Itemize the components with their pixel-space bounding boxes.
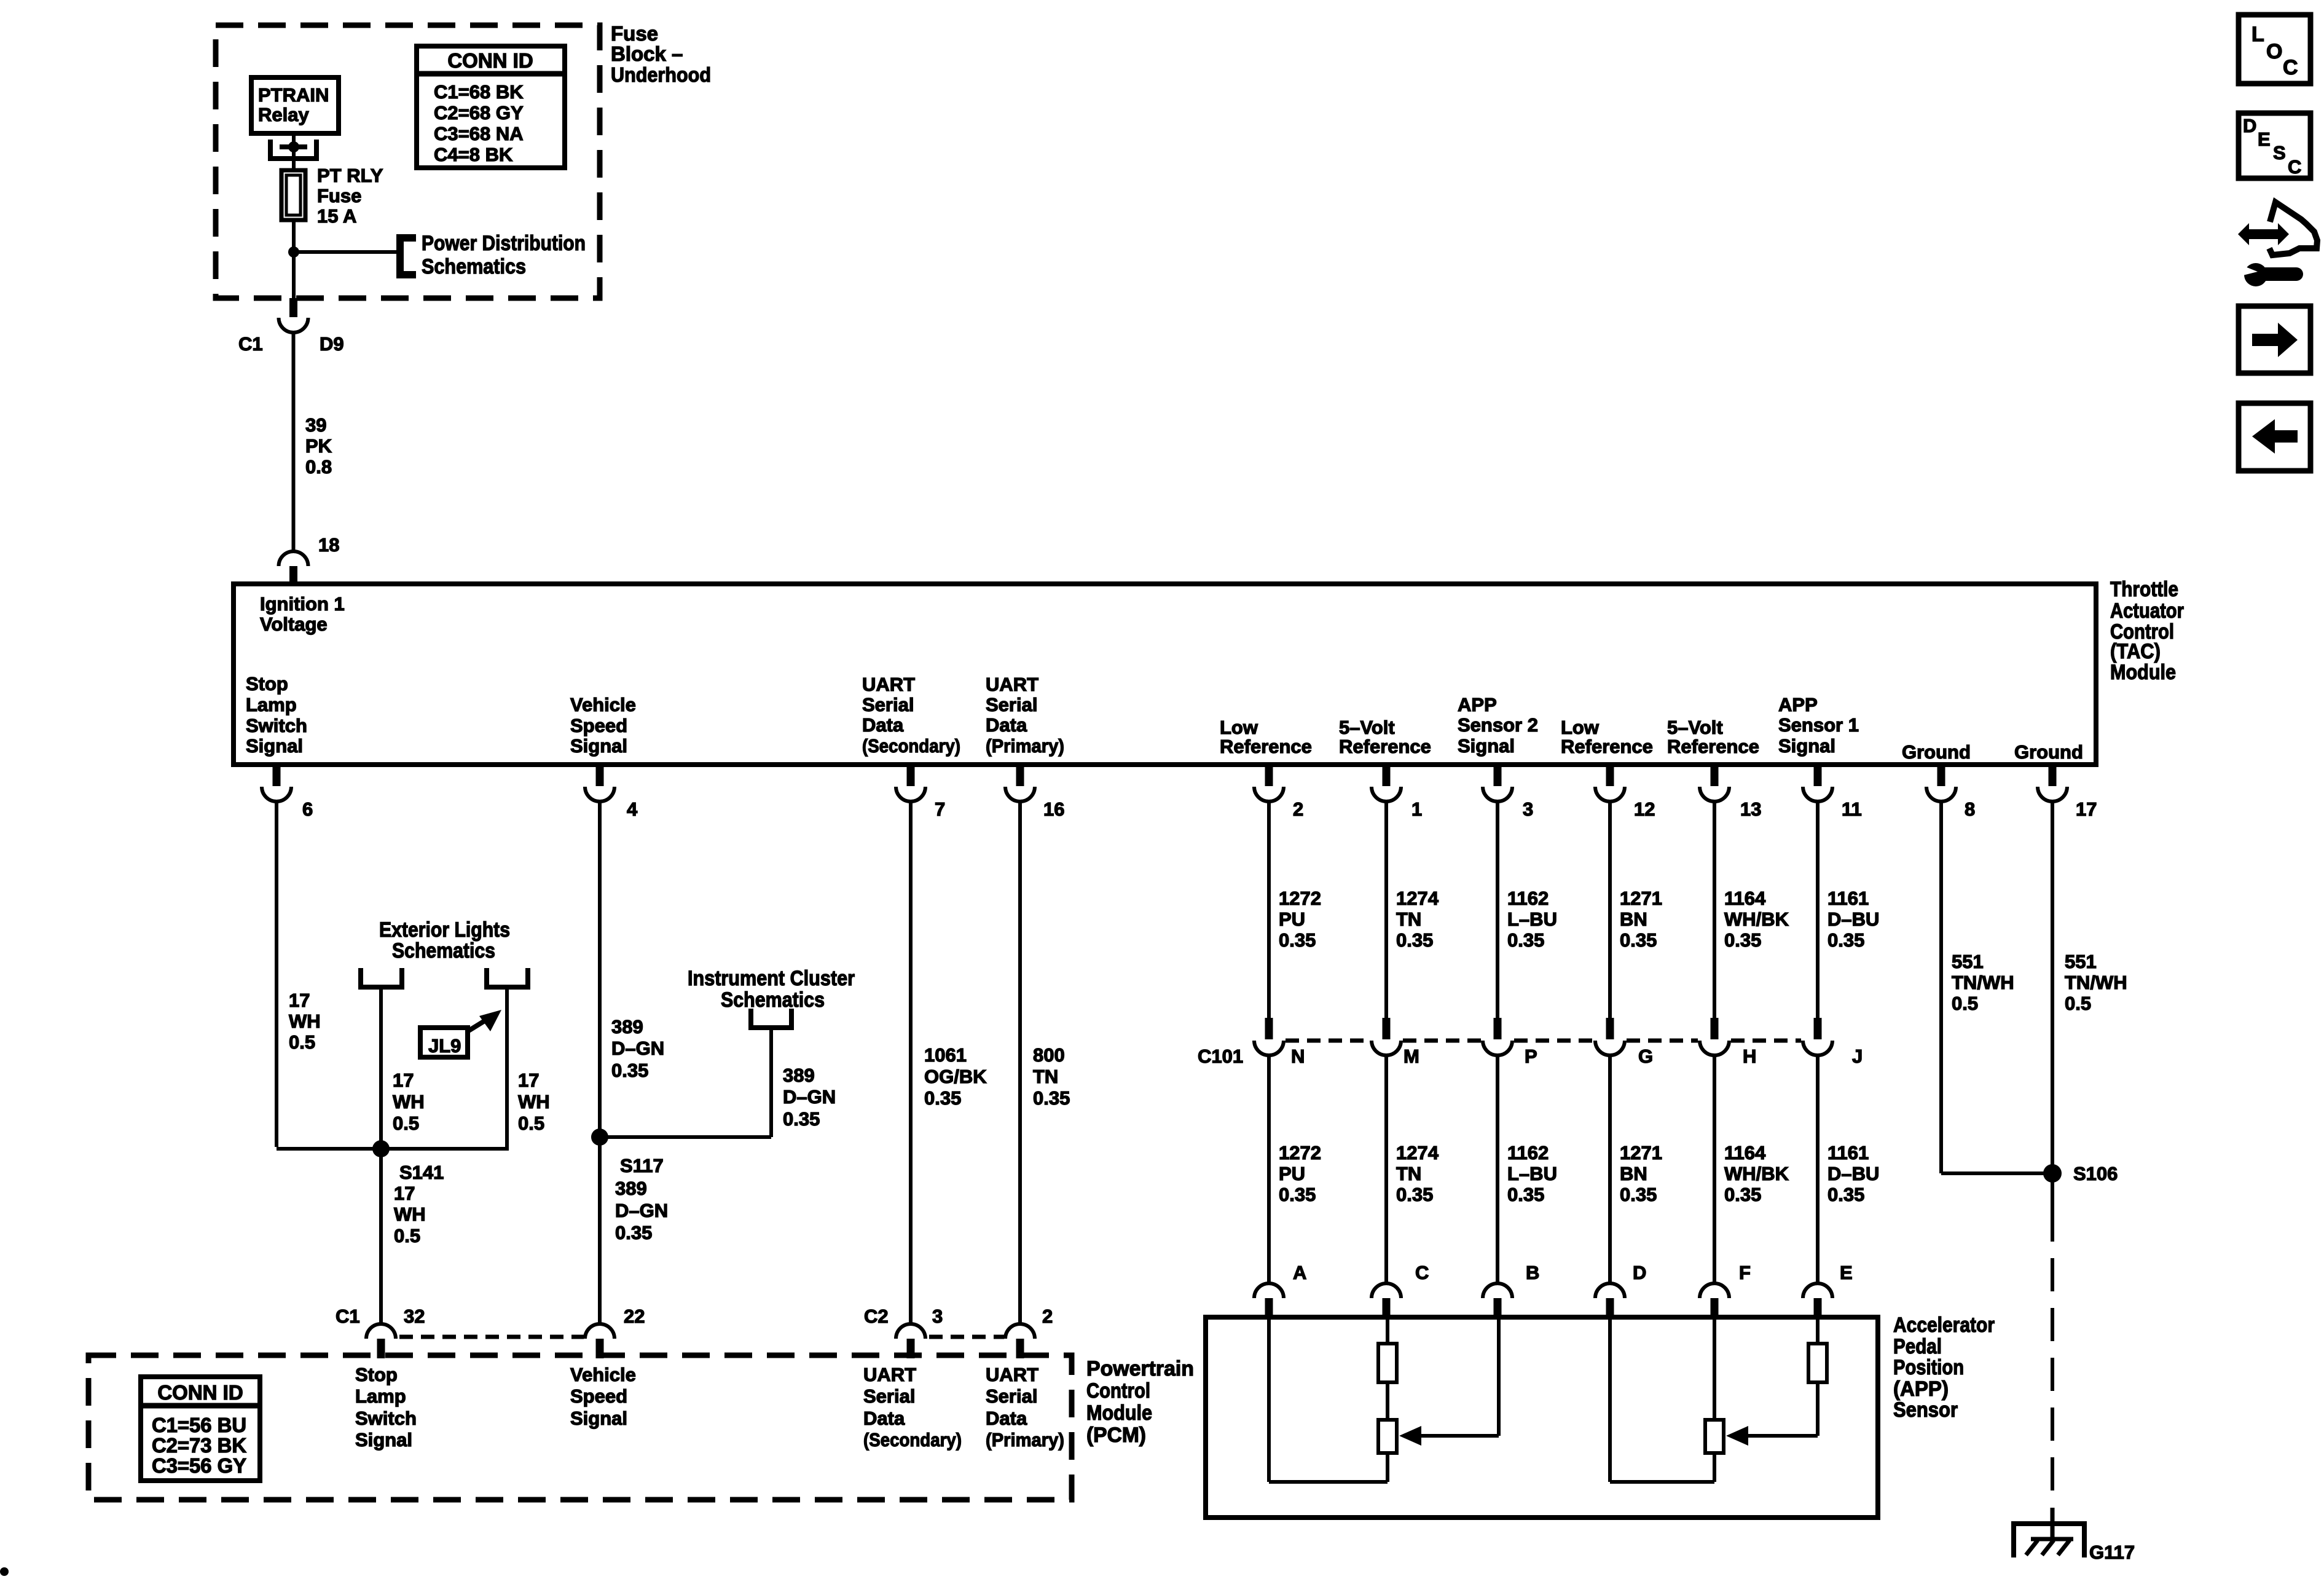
svg-text:Fuse: Fuse [317, 185, 361, 207]
wire 1274 label (upper) [1396, 888, 1439, 951]
connector C101 pin M [1372, 1018, 1401, 1055]
svg-text:D–BU: D–BU [1827, 908, 1879, 930]
svg-text:C3=56 GY: C3=56 GY [152, 1454, 246, 1477]
svg-text:S141: S141 [399, 1162, 444, 1183]
svg-text:Reference: Reference [1220, 736, 1312, 757]
APP wire pin E signal [1816, 1317, 1820, 1345]
wire 1161 D–BU 0.35 (TAC to C101 J) [1816, 800, 1820, 1018]
svg-text:WH/BK: WH/BK [1724, 1163, 1789, 1184]
svg-text:Data: Data [986, 1408, 1027, 1429]
C101 pin G label [1638, 1045, 1653, 1067]
wire 1164 WH/BK 0.35 (C101 to APP F) [1713, 1054, 1716, 1284]
PCM pin label: Stop Lamp Switch Signal [355, 1364, 417, 1451]
svg-text:Switch: Switch [355, 1408, 417, 1429]
connector TAC pin 3 [1483, 767, 1512, 801]
svg-text:B: B [1526, 1262, 1539, 1283]
wire 1272 label (lower) [1279, 1142, 1321, 1205]
svg-text:1274: 1274 [1396, 888, 1439, 909]
svg-text:1272: 1272 [1279, 1142, 1321, 1164]
fuse F_PTRLY 15A [281, 170, 305, 220]
APP wire potentiometer bottom (C) [1386, 1453, 1389, 1482]
svg-text:13: 13 [1740, 798, 1761, 820]
pin 12 label [1634, 798, 1655, 820]
PCM pin label: Vehicle Speed Signal [570, 1364, 636, 1429]
icon back arrow box [2239, 403, 2310, 471]
svg-text:0.5: 0.5 [518, 1112, 544, 1134]
svg-text:C4=8 BK: C4=8 BK [434, 144, 513, 165]
svg-text:12: 12 [1634, 798, 1655, 820]
svg-text:F: F [1739, 1262, 1751, 1283]
pin 16 label [1043, 798, 1064, 820]
svg-text:TN: TN [1033, 1066, 1058, 1087]
svg-text:UART: UART [862, 674, 915, 695]
svg-text:Low: Low [1220, 717, 1258, 738]
svg-text:Powertrain: Powertrain [1086, 1357, 1194, 1380]
wire 1271 label (upper) [1620, 888, 1662, 951]
wire 1162 L–BU 0.35 (C101 to APP B) [1496, 1054, 1499, 1284]
splice S141 label [394, 1162, 444, 1246]
svg-text:C1: C1 [238, 333, 263, 355]
svg-text:0.5: 0.5 [394, 1225, 420, 1246]
svg-text:P: P [1525, 1045, 1537, 1067]
PCM C1 in-line dashed link [399, 1335, 584, 1339]
connector TAC pin 16 [1005, 767, 1035, 801]
svg-text:Throttle: Throttle [2110, 578, 2178, 601]
wire 17 WH 0.5 (pin 6 to S141) [275, 800, 278, 1147]
connector C1 pin D9 labels [238, 333, 344, 355]
connector TAC pin 6 [262, 767, 291, 801]
TAC pin label: APP Sensor 1 Signal [1778, 694, 1859, 757]
svg-text:Underhood: Underhood [611, 63, 711, 86]
svg-text:2: 2 [1042, 1305, 1053, 1327]
TAC pin label: Ground (pin 17) [2014, 741, 2083, 763]
svg-text:C2=73 BK: C2=73 BK [152, 1434, 246, 1457]
TAC pin label: 5-Volt Reference (pin 13) [1667, 717, 1759, 757]
svg-text:Block –: Block – [611, 42, 683, 65]
PCM pin label: UART Serial Data (Primary) [986, 1364, 1064, 1451]
svg-text:Ignition 1: Ignition 1 [260, 593, 345, 615]
svg-text:CONN ID: CONN ID [157, 1381, 243, 1404]
icon DESC box [2239, 113, 2310, 178]
connector TAC pin 7 [896, 767, 925, 801]
svg-text:6: 6 [302, 798, 313, 820]
connector PCM pin 2 [1005, 1324, 1035, 1358]
wiper arrow APP sensor 2 [1399, 1426, 1421, 1446]
svg-text:Data: Data [862, 714, 904, 736]
relay K_PTRAIN box [251, 77, 339, 133]
svg-text:8: 8 [1965, 798, 1975, 820]
C101 pin H label [1743, 1045, 1756, 1067]
svg-text:Switch: Switch [246, 715, 307, 736]
connector TAC pin 11 [1803, 767, 1832, 801]
connector PCM pin 3 [896, 1324, 925, 1358]
APP pin B label [1526, 1262, 1539, 1283]
connector TAC pin 12 [1595, 767, 1625, 801]
wire 1161 label (upper) [1827, 888, 1879, 951]
svg-text:H: H [1743, 1045, 1756, 1067]
connector TAC pin 17 [2038, 767, 2067, 801]
wire 1061 OG/BK 0.35 label [924, 1044, 987, 1109]
connector APP pin A [1254, 1283, 1284, 1317]
APP sensor name [1893, 1313, 1995, 1422]
svg-text:0.35: 0.35 [1279, 1184, 1316, 1205]
wire from right bracket to S141 rail [505, 990, 509, 1151]
svg-text:PT RLY: PT RLY [317, 165, 383, 186]
wire 1161 D–BU 0.35 (C101 to APP E) [1816, 1054, 1820, 1284]
svg-text:APP: APP [1778, 694, 1818, 715]
svg-text:0.35: 0.35 [1827, 929, 1864, 951]
svg-text:389: 389 [783, 1065, 815, 1086]
connector APP pin B [1483, 1283, 1512, 1317]
PCM pin 2 label [1042, 1305, 1053, 1327]
svg-text:Data: Data [986, 714, 1027, 736]
svg-text:0.35: 0.35 [924, 1087, 961, 1109]
svg-text:CONN ID: CONN ID [447, 49, 533, 72]
pin 1 label [1411, 798, 1422, 820]
svg-text:Voltage: Voltage [260, 613, 328, 635]
PCM pin label: UART Serial Data (Secondary) [863, 1364, 962, 1451]
svg-text:551: 551 [1952, 951, 1984, 972]
svg-text:D9: D9 [320, 333, 344, 355]
PCM C2 in-line dashed link [929, 1335, 1004, 1339]
svg-text:0.5: 0.5 [289, 1031, 315, 1053]
potentiometer APP sensor 2 [1378, 1420, 1397, 1453]
APP wire pin D low reference [1610, 1317, 1714, 1482]
svg-text:0.35: 0.35 [1507, 929, 1544, 951]
APP pin D label [1633, 1262, 1646, 1283]
wire 1164 label (lower) [1724, 1142, 1789, 1205]
wire S141 to PCM pin 32 [379, 1149, 383, 1324]
relay contact bracket [270, 140, 316, 159]
wire 1272 label (upper) [1279, 888, 1321, 951]
APP wire resistor to wiper (E) [1746, 1382, 1818, 1436]
svg-text:C1=68 BK: C1=68 BK [434, 81, 524, 103]
connector PCM pin 22 [585, 1324, 614, 1358]
svg-text:22: 22 [624, 1305, 645, 1327]
svg-text:Reference: Reference [1561, 736, 1653, 757]
wire 389 D-GN 0.35 (pin 4 to PCM 22) [598, 800, 602, 1324]
svg-text:WH: WH [393, 1091, 425, 1112]
APP pin E label [1840, 1262, 1853, 1283]
splice S117 [591, 1128, 608, 1146]
svg-text:WH: WH [394, 1203, 426, 1225]
svg-text:Signal: Signal [570, 735, 627, 757]
svg-text:Low: Low [1561, 717, 1600, 738]
wire 1274 TN 0.35 (C101 to APP C) [1384, 1054, 1388, 1284]
APP wire pin A low reference [1269, 1317, 1388, 1482]
JL9 RPO box [420, 1028, 468, 1057]
icon forward arrow [2252, 323, 2298, 357]
C101 pin M label [1403, 1045, 1419, 1067]
svg-text:0.35: 0.35 [615, 1222, 652, 1243]
svg-text:32: 32 [404, 1305, 425, 1327]
wire 1061 OG/BK 0.35 (pin 7 to PCM 3) [909, 800, 913, 1324]
svg-text:WH: WH [289, 1010, 321, 1032]
connector APP pin E [1803, 1283, 1832, 1317]
svg-text:18: 18 [318, 534, 339, 556]
C101 connector label [1198, 1045, 1243, 1067]
connector PCM pin 32 [366, 1324, 396, 1358]
svg-text:(Secondary): (Secondary) [862, 735, 960, 757]
svg-text:1: 1 [1411, 798, 1422, 820]
page artifact dot bottom-left [0, 1567, 9, 1576]
wire 39 PK 0.8 [292, 331, 296, 552]
svg-text:(Secondary): (Secondary) [863, 1429, 962, 1451]
svg-text:(APP): (APP) [1893, 1377, 1949, 1401]
svg-text:G117: G117 [2089, 1542, 2135, 1563]
svg-text:(PCM): (PCM) [1086, 1423, 1146, 1447]
pin 6 label [302, 798, 313, 820]
wire 1271 label (lower) [1620, 1142, 1662, 1205]
pin 11 label [1842, 798, 1862, 820]
svg-text:1161: 1161 [1827, 888, 1869, 909]
svg-text:1061: 1061 [924, 1044, 967, 1066]
wire 39 PK 0.8 label [305, 414, 332, 478]
pin 17 label [2076, 798, 2097, 820]
wire 1272 PU 0.35 (TAC to C101 N) [1267, 800, 1271, 1018]
wire fuse to box bottom [292, 220, 296, 299]
svg-text:E: E [1840, 1262, 1853, 1283]
connector APP pin C [1372, 1283, 1401, 1317]
resistor APP sensor 2 series [1378, 1344, 1397, 1382]
wire 800 TN 0.35 (pin 16 to PCM 2) [1018, 800, 1022, 1324]
svg-text:Stop: Stop [355, 1364, 398, 1385]
node power distribution junction [288, 246, 299, 258]
icon forward arrow box [2239, 306, 2310, 373]
CONN ID table (PCM) [141, 1377, 260, 1481]
svg-text:Signal: Signal [1458, 735, 1515, 757]
wire 551 TN/WH 0.5 (pin 17) [2051, 800, 2054, 1173]
svg-text:D: D [1633, 1262, 1646, 1283]
svg-text:Power Distribution: Power Distribution [422, 232, 586, 255]
APP wire pin B signal to wiper [1419, 1317, 1499, 1436]
CONN ID table (PCM) text [152, 1381, 246, 1477]
svg-text:D–GN: D–GN [783, 1086, 836, 1108]
wire 1162 L–BU 0.35 (TAC to C101 P) [1496, 800, 1499, 1018]
svg-text:5–Volt: 5–Volt [1667, 717, 1723, 738]
ground G117 label [2089, 1542, 2135, 1563]
svg-text:Reference: Reference [1667, 736, 1759, 757]
icon LOC box [2239, 15, 2310, 84]
PCM pin 3 label [864, 1305, 943, 1327]
svg-text:JL9: JL9 [428, 1035, 461, 1057]
svg-text:Ground: Ground [2014, 741, 2083, 763]
svg-text:Exterior Lights: Exterior Lights [379, 918, 510, 942]
CONN ID table (fuse block) text [434, 49, 533, 165]
svg-text:Signal: Signal [570, 1408, 627, 1429]
svg-text:OG/BK: OG/BK [924, 1066, 987, 1087]
svg-text:(TAC): (TAC) [2110, 640, 2161, 663]
svg-text:UART: UART [986, 1364, 1038, 1385]
svg-text:Serial: Serial [862, 694, 914, 715]
svg-text:Schematics: Schematics [422, 255, 526, 278]
svg-text:17: 17 [518, 1069, 539, 1091]
svg-text:Speed: Speed [570, 1385, 627, 1407]
svg-text:5–Volt: 5–Volt [1339, 717, 1395, 738]
C101 pin N label [1291, 1045, 1305, 1067]
pin 8 label [1965, 798, 1975, 820]
svg-text:N: N [1291, 1045, 1305, 1067]
pin 13 label [1740, 798, 1761, 820]
svg-text:Reference: Reference [1339, 736, 1431, 757]
pin 7 label [935, 798, 945, 820]
svg-text:UART: UART [986, 674, 1038, 695]
svg-text:Control: Control [1086, 1379, 1150, 1403]
wire 800 TN 0.35 label [1033, 1044, 1070, 1109]
svg-text:Module: Module [1086, 1401, 1152, 1425]
svg-text:WH/BK: WH/BK [1724, 908, 1789, 930]
PCM pin 22 label [624, 1305, 645, 1327]
wire 1164 label (upper) [1724, 888, 1789, 951]
APP sensor box [1206, 1317, 1878, 1518]
pin 18 label [318, 534, 339, 556]
connector TAC pin 1 [1372, 767, 1401, 801]
svg-text:15 A: 15 A [317, 205, 356, 227]
splice S106 label [2073, 1163, 2118, 1184]
svg-text:1161: 1161 [1827, 1142, 1869, 1164]
APP pin C label [1415, 1262, 1429, 1283]
svg-text:0.35: 0.35 [1620, 929, 1657, 951]
wire 551 TN/WH 0.5 (pin 8) [1941, 800, 2052, 1173]
svg-text:Lamp: Lamp [246, 694, 297, 715]
svg-text:0.35: 0.35 [611, 1060, 648, 1081]
svg-text:BN: BN [1620, 908, 1647, 930]
TAC pin label: APP Sensor 2 Signal [1458, 694, 1538, 757]
svg-text:0.5: 0.5 [2065, 993, 2091, 1014]
svg-text:1164: 1164 [1724, 1142, 1766, 1164]
fuse block underhood label [611, 22, 711, 86]
svg-text:PTRAIN: PTRAIN [258, 84, 329, 106]
connector C101 pin J [1803, 1018, 1832, 1055]
wire S106 solid tail [2051, 1173, 2054, 1242]
PCM dashed box [88, 1355, 1072, 1500]
wire instrument cluster branch horizontal to S117 [600, 1135, 771, 1139]
connector C101 pin P [1483, 1018, 1512, 1055]
svg-text:17: 17 [394, 1183, 415, 1204]
fuse F_PTRLY label [317, 165, 383, 227]
svg-text:1271: 1271 [1620, 1142, 1662, 1164]
svg-text:389: 389 [615, 1178, 647, 1199]
TAC pin label: UART Serial Data (Primary) [986, 674, 1064, 757]
relay K_PTRAIN label [258, 84, 329, 125]
TAC pin label: Ignition 1 Voltage [260, 593, 345, 635]
svg-text:TN/WH: TN/WH [1952, 972, 2014, 993]
svg-text:0.35: 0.35 [1724, 1184, 1761, 1205]
svg-text:Signal: Signal [1778, 735, 1835, 757]
svg-text:G: G [1638, 1045, 1653, 1067]
connector C101 pin G [1595, 1018, 1625, 1055]
wire 1274 label (lower) [1396, 1142, 1439, 1205]
svg-text:0.5: 0.5 [393, 1112, 419, 1134]
svg-text:Speed: Speed [570, 715, 627, 736]
wire 1164 WH/BK 0.35 (TAC to C101 H) [1713, 800, 1716, 1018]
svg-text:S117: S117 [620, 1155, 664, 1176]
C101 in-line harness dashed line [1286, 1039, 1801, 1043]
JL9 arrow [468, 1010, 501, 1031]
svg-text:C: C [2288, 156, 2301, 178]
svg-text:Pedal: Pedal [1893, 1335, 1942, 1358]
icon back arrow [2252, 419, 2298, 454]
svg-text:O: O [2266, 40, 2282, 63]
svg-text:D–GN: D–GN [615, 1200, 668, 1221]
svg-text:Vehicle: Vehicle [570, 694, 636, 715]
TAC pin label: Low Reference (pin 12) [1561, 717, 1653, 757]
svg-text:39: 39 [305, 414, 326, 436]
svg-text:Sensor: Sensor [1893, 1398, 1958, 1422]
svg-text:16: 16 [1043, 798, 1064, 820]
wire 1162 label (lower) [1507, 1142, 1557, 1205]
wire 1272 PU 0.35 (C101 to APP A) [1267, 1054, 1271, 1284]
instrument cluster off-page bracket [751, 1009, 791, 1028]
svg-text:0.35: 0.35 [1827, 1184, 1864, 1205]
svg-text:A: A [1293, 1262, 1306, 1283]
PCM name [1086, 1357, 1194, 1447]
svg-text:D: D [2243, 115, 2256, 136]
svg-text:Schematics: Schematics [392, 939, 495, 963]
svg-text:C: C [1415, 1262, 1429, 1283]
svg-text:M: M [1403, 1045, 1419, 1067]
C101 pin P label [1525, 1045, 1537, 1067]
svg-text:D–GN: D–GN [611, 1038, 664, 1059]
wire 551 TN/WH 0.5 label (pin 8) [1952, 951, 2014, 1014]
connector TAC pin 13 [1700, 767, 1729, 801]
svg-text:Signal: Signal [355, 1429, 412, 1451]
connector APP pin F [1700, 1283, 1729, 1317]
svg-text:11: 11 [1842, 798, 1862, 820]
splice S141 [372, 1140, 390, 1157]
wire instrument cluster branch vertical [769, 1030, 773, 1137]
TAC module name [2110, 578, 2184, 684]
APP pin A label [1293, 1262, 1306, 1283]
svg-text:C: C [2283, 56, 2298, 79]
wire 1271 BN 0.35 (C101 to APP D) [1608, 1054, 1612, 1284]
wire 389 D-GN 0.35 label (pin 4) [611, 1016, 664, 1081]
svg-text:0.8: 0.8 [305, 456, 332, 478]
svg-text:389: 389 [611, 1016, 643, 1038]
svg-text:APP: APP [1458, 694, 1497, 715]
TAC pin label: 5-Volt Reference (pin 1) [1339, 717, 1431, 757]
svg-text:0.35: 0.35 [783, 1108, 820, 1130]
svg-text:0.35: 0.35 [1279, 929, 1316, 951]
svg-text:C1: C1 [336, 1305, 360, 1327]
svg-text:L–BU: L–BU [1507, 1163, 1557, 1184]
svg-text:UART: UART [863, 1364, 916, 1385]
svg-text:3: 3 [932, 1305, 943, 1327]
TAC pin label: Ground (pin 8) [1902, 741, 1971, 763]
svg-text:1272: 1272 [1279, 888, 1321, 909]
svg-text:L: L [2251, 23, 2264, 46]
svg-text:(Primary): (Primary) [986, 1429, 1064, 1451]
Instrument Cluster Schematics label [688, 967, 855, 1012]
potentiometer APP sensor 1 [1705, 1420, 1724, 1453]
svg-text:Fuse: Fuse [611, 22, 658, 45]
svg-text:WH: WH [518, 1091, 550, 1112]
power distribution label [422, 232, 586, 278]
svg-text:0.5: 0.5 [1952, 993, 1978, 1014]
wire 1161 label (lower) [1827, 1142, 1879, 1205]
svg-text:PU: PU [1279, 908, 1305, 930]
resistor APP sensor 1 series [1808, 1344, 1827, 1382]
connector TAC pin 8 [1926, 767, 1956, 801]
icon component-locator arrow-wrench [2238, 202, 2317, 286]
wire 389 D-GN 0.35 label (cluster branch) [783, 1065, 836, 1130]
svg-text:0.35: 0.35 [1724, 929, 1761, 951]
svg-text:1271: 1271 [1620, 888, 1662, 909]
node relay contact junction [288, 141, 299, 152]
exterior lights off-page bracket right [487, 968, 528, 987]
svg-text:Stop: Stop [246, 673, 288, 695]
svg-text:17: 17 [289, 990, 310, 1011]
